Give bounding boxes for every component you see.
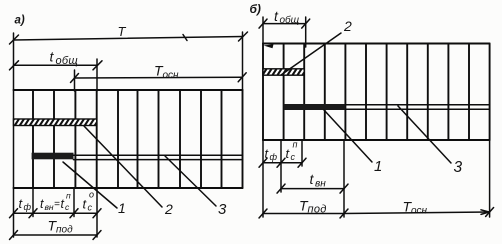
label T (118, 24, 127, 39)
svg-text:с: с (88, 203, 93, 213)
label T_pod a (48, 218, 74, 236)
grid b bottom line (263, 139, 490, 141)
svg-text:3: 3 (218, 201, 227, 218)
T_osn a left slash (71, 74, 79, 83)
svg-text:б): б) (250, 2, 261, 16)
callout 3 b (454, 159, 463, 176)
dimension T_pod a line (14, 234, 98, 236)
svg-text:ф: ф (270, 152, 278, 162)
svg-text:=: = (54, 199, 60, 210)
dimension T left slash (10, 35, 19, 44)
extension line x=344 bottom b (343, 140, 345, 217)
label t_obsh a (50, 49, 79, 68)
callout 3 a (218, 201, 227, 218)
svg-text:о: о (89, 190, 94, 200)
right edge extension line a (242, 32, 244, 90)
dimension t_obsh b line (263, 23, 306, 25)
row1 a slashes (10, 209, 102, 218)
svg-text:2: 2 (164, 201, 173, 217)
leader 3 a (165, 156, 216, 206)
extension line x=74.5 a (74, 70, 76, 91)
svg-text:вн: вн (315, 178, 326, 189)
callout 1 a (118, 200, 126, 216)
label t_f b (265, 146, 278, 162)
dimension T_osn b line (344, 212, 490, 214)
leader 1 b (324, 110, 372, 162)
label t_vn=t_s^p a (40, 191, 71, 213)
row1 b slashes (259, 158, 306, 167)
svg-text:3: 3 (454, 159, 463, 176)
leader 2 b (281, 33, 341, 75)
grid a bottom line (14, 187, 243, 189)
label t_vn b (310, 171, 327, 189)
svg-text:2: 2 (343, 18, 352, 34)
dimension t_vn b line (281, 188, 344, 190)
extension line x=305.7 top b (305, 17, 307, 47)
thin double line a (74, 155, 243, 159)
t_vn b left arrow (277, 184, 285, 193)
label a) (15, 15, 25, 27)
svg-text:1: 1 (374, 158, 382, 175)
label t_obsh b (274, 8, 300, 26)
t_obsh b left slash (259, 19, 267, 28)
extension line x=74 bottom a (73, 188, 75, 217)
grid a vertical lines (33, 90, 243, 188)
svg-text:осн: осн (411, 206, 428, 217)
black bar b (284, 104, 346, 110)
extension line x=281 bottom b (280, 140, 282, 192)
grid b vertical lines (263, 44, 490, 141)
dimension row1 a line (14, 212, 98, 214)
t_obsh a left slash (10, 61, 19, 70)
dimension T line (14, 35, 244, 41)
svg-text:под: под (56, 225, 73, 236)
svg-text:с: с (291, 152, 296, 162)
dimension T_pod b line (263, 213, 344, 215)
svg-text:вн: вн (45, 202, 54, 212)
label t_s^p b (286, 140, 298, 163)
grid a top line (14, 89, 243, 91)
T_pod a slashes (10, 231, 102, 240)
svg-text:осн: осн (163, 70, 180, 81)
svg-text:t: t (61, 197, 65, 211)
svg-text:общ: общ (280, 14, 300, 26)
extension line x=263 bottom b (262, 140, 264, 217)
extension line x=490 bottom b (489, 140, 491, 217)
hatched bar b (263, 69, 304, 75)
label t_s^o a (83, 190, 95, 213)
black bar a (32, 153, 74, 160)
extension line x=33 bottom a (32, 188, 34, 217)
grid b top line with left arrow (263, 44, 490, 49)
label T_osn b (403, 199, 428, 217)
dimension t_obsh a line (14, 64, 98, 66)
thin double line b (345, 105, 489, 110)
hatched bar a (14, 119, 97, 126)
leader 1 a (63, 162, 117, 208)
extension line x=97 bottom a (96, 188, 98, 237)
row3 b slashes (259, 208, 494, 219)
leader 3 b (398, 106, 451, 163)
label t_f a (19, 196, 32, 212)
svg-text:1: 1 (118, 200, 126, 216)
t_vn b right arrow (340, 184, 348, 193)
t_obsh a right slash (93, 61, 102, 70)
dimension row1 b line (263, 162, 302, 164)
svg-text:общ: общ (56, 55, 79, 67)
svg-text:под: под (308, 204, 327, 216)
extension line x=97 a (96, 59, 98, 91)
label T_pod b (299, 198, 327, 216)
svg-text:ф: ф (24, 202, 32, 212)
svg-text:п: п (66, 191, 71, 201)
t_obsh b right slash (302, 19, 310, 28)
callout 1 b (374, 158, 382, 175)
label T_osn a (154, 63, 179, 82)
label b) (250, 2, 261, 16)
extension line x=302 bottom b (301, 140, 303, 166)
dimension T right slash (239, 32, 248, 41)
extension line x=263 top b (262, 17, 264, 44)
leader 2 a (84, 126, 162, 207)
svg-text:а): а) (15, 15, 25, 27)
svg-text:п: п (293, 140, 298, 150)
svg-text:t: t (40, 197, 44, 211)
svg-text:Т: Т (118, 24, 127, 39)
T_osn a right arrow (238, 73, 246, 82)
left edge extension line a (13, 33, 15, 237)
callout 2 a (164, 201, 173, 217)
callout 2 b (343, 18, 352, 34)
dimension T_osn a line (75, 76, 242, 79)
